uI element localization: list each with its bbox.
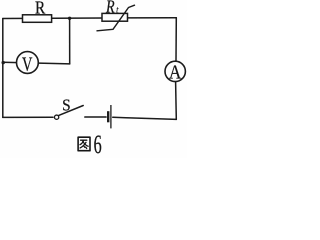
svg-text:6: 6 <box>94 130 102 158</box>
svg-text:R: R <box>35 0 46 18</box>
svg-text:R: R <box>105 0 115 17</box>
svg-text:S: S <box>62 97 71 115</box>
svg-text:t: t <box>116 5 119 17</box>
svg-text:V: V <box>22 52 33 75</box>
svg-text:A: A <box>169 61 182 84</box>
